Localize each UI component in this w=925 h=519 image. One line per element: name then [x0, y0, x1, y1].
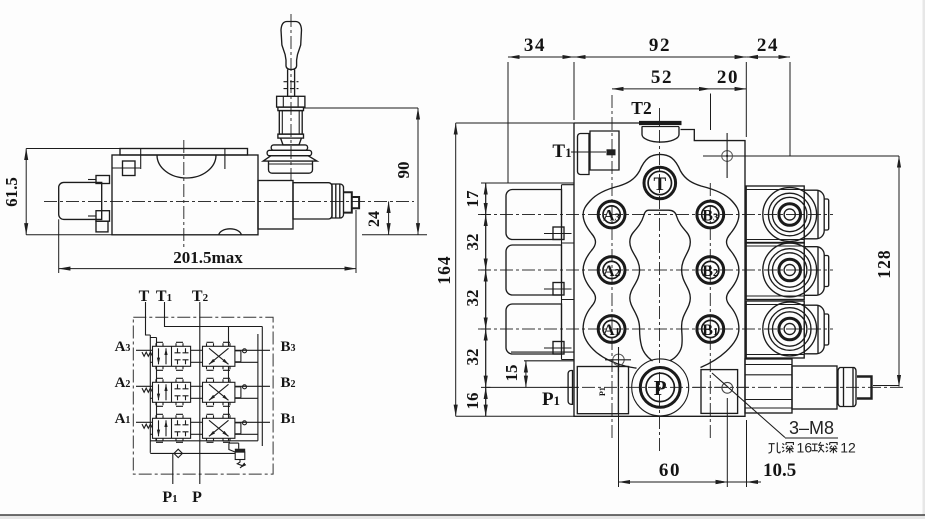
svg-text:3–M8: 3–M8	[789, 418, 834, 438]
wire P1 drop	[172, 453, 174, 484]
dim 24 side	[362, 202, 427, 235]
svg-text:P1: P1	[542, 389, 560, 410]
wavy port-boss contour outer	[583, 154, 739, 368]
port B1	[697, 316, 724, 343]
valve section 2 (middle row)	[136, 378, 270, 406]
3-M8 rectangle	[693, 370, 749, 414]
centerline spool axis	[44, 201, 414, 203]
caps area top edge line	[486, 182, 574, 184]
wire left bus	[149, 335, 151, 453]
valve housing right R1	[258, 181, 293, 230]
P1 fitting	[568, 367, 628, 414]
svg-text:32: 32	[463, 290, 482, 307]
dim 10.5	[713, 420, 796, 487]
svg-text:52: 52	[651, 67, 673, 88]
spool cap row3	[506, 304, 572, 354]
leader 3-M8	[712, 373, 838, 438]
section joint lines	[140, 149, 142, 170]
lever lower shaft	[279, 111, 302, 135]
work port fitting row1	[746, 186, 829, 243]
svg-text:92: 92	[649, 35, 671, 56]
svg-text:32: 32	[463, 234, 482, 251]
centerline body vertical	[183, 140, 185, 250]
hex nut right	[332, 184, 344, 218]
centerline row A3-B3	[478, 214, 833, 216]
top plate	[120, 149, 248, 156]
svg-text:15: 15	[502, 365, 521, 382]
lever knob	[281, 22, 302, 70]
svg-text:T1: T1	[552, 141, 571, 162]
dim 24 top	[746, 35, 790, 156]
port T	[644, 167, 676, 199]
port A3	[598, 201, 625, 228]
foot pad left	[96, 221, 108, 232]
dim 60	[619, 373, 728, 487]
centerline bolt hole axis	[703, 155, 899, 157]
centerline lever axis	[290, 14, 292, 183]
svg-text:60: 60	[659, 460, 681, 481]
bottom bump	[219, 229, 242, 235]
dim 61.5	[2, 149, 120, 235]
svg-text:32: 32	[463, 349, 482, 366]
port B2	[697, 257, 724, 284]
svg-text:24: 24	[757, 35, 779, 56]
svg-text:10.5: 10.5	[763, 460, 796, 481]
svg-text:T: T	[653, 174, 666, 195]
centerline row A1-B1	[478, 328, 833, 330]
hanzi shen (deep) #2	[826, 443, 838, 454]
relief valve bottom right	[745, 359, 872, 413]
hanzi kong (hole)	[768, 442, 780, 453]
small fitting top left of body	[123, 161, 136, 176]
block R2	[293, 183, 332, 219]
svg-text:12: 12	[840, 440, 856, 456]
port P	[632, 359, 689, 416]
work port fitting row3	[746, 301, 829, 358]
cap mounting strip	[562, 185, 575, 360]
wire T1 drop	[165, 302, 263, 327]
arc notch top	[157, 155, 216, 178]
spool cap row2	[506, 245, 572, 295]
main body block	[112, 155, 258, 235]
dim 20	[711, 67, 747, 89]
svg-text:17: 17	[463, 190, 482, 208]
svg-text:90: 90	[394, 162, 413, 179]
wire right bus	[258, 327, 262, 447]
dim 92	[574, 35, 746, 137]
port A2	[598, 257, 625, 284]
dim 164	[434, 123, 574, 416]
hanzi shen (deep)	[782, 443, 794, 454]
svg-text:164: 164	[434, 255, 454, 284]
relief valve symbol	[229, 443, 245, 468]
boot skirt	[263, 156, 317, 161]
svg-text:128: 128	[874, 249, 894, 278]
svg-text:P: P	[192, 489, 202, 506]
dim 34	[508, 35, 574, 183]
centerline P axis	[560, 386, 906, 388]
wire bottom bus	[150, 441, 258, 454]
port A1	[598, 316, 625, 343]
caps area bottom step	[511, 352, 574, 361]
centerline row A2-B2	[478, 269, 833, 271]
svg-text:61.5: 61.5	[2, 177, 21, 207]
boot disc2	[267, 150, 312, 155]
hex adapter	[277, 96, 305, 107]
boot base	[269, 161, 313, 173]
tip screw	[344, 192, 352, 212]
svg-text:T2: T2	[631, 98, 651, 118]
boot disc1	[271, 145, 307, 150]
svg-text:16: 16	[463, 393, 482, 410]
svg-text:P: P	[654, 376, 667, 400]
svg-text:T: T	[139, 288, 150, 305]
inter-section wires	[150, 327, 228, 441]
end cap left	[59, 182, 102, 219]
svg-text:20: 20	[717, 67, 739, 88]
wavy contour inner slot	[630, 210, 691, 361]
T2 cap	[639, 121, 682, 125]
orifice symbol	[174, 449, 182, 457]
svg-text:201.5max: 201.5max	[173, 248, 243, 267]
valve body outline	[574, 123, 745, 416]
wire T2/P main line	[199, 302, 201, 484]
centerline B-column	[709, 183, 711, 440]
svg-text:16: 16	[797, 440, 813, 456]
dim 128	[790, 156, 899, 387]
bottom frame line	[0, 514, 925, 516]
dim 90	[303, 108, 418, 235]
svg-text:34: 34	[524, 35, 546, 56]
bolt hole top right	[722, 133, 733, 178]
valve section 1 (bottom row)	[136, 414, 270, 442]
work port fitting row2	[746, 243, 829, 300]
svg-text:24: 24	[366, 211, 383, 227]
end cap tabs	[96, 176, 110, 184]
label kongshen16 gongshen12 (drawn hanzi)	[768, 440, 856, 456]
centerline A-column	[611, 95, 613, 440]
centerline vertical middle	[659, 108, 661, 452]
lever shaft	[287, 69, 289, 96]
hanzi gong (tap)	[812, 442, 824, 452]
T1 fitting	[590, 131, 619, 170]
svg-text:P1: P1	[598, 387, 607, 396]
dim 15	[486, 361, 578, 388]
port B3	[697, 201, 724, 228]
enclosure dash-dot box	[133, 317, 273, 474]
bolt hole bottom left	[605, 347, 631, 372]
dim 201.5max	[59, 210, 356, 273]
dim chain 17/32/32/32/16	[463, 183, 490, 416]
wire T drop	[146, 302, 151, 335]
valve section 3 (top row)	[136, 342, 270, 370]
dim 52	[612, 67, 711, 130]
spool cap row1	[506, 190, 572, 240]
